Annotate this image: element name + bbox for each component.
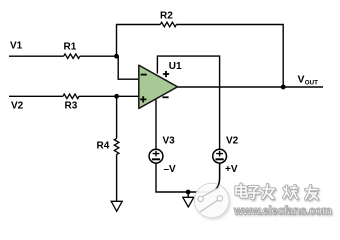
svg-text:R3: R3 <box>65 101 78 112</box>
svg-text:R4: R4 <box>97 140 110 151</box>
svg-text:U1: U1 <box>169 61 182 72</box>
svg-text:www.elecfans.com: www.elecfans.com <box>233 206 332 218</box>
svg-text:V1: V1 <box>10 40 23 51</box>
svg-text:V3: V3 <box>163 135 176 146</box>
svg-text:OUT: OUT <box>305 80 318 87</box>
svg-text:–V: –V <box>164 164 177 175</box>
svg-text:R1: R1 <box>64 41 77 52</box>
svg-text:V2: V2 <box>226 135 239 146</box>
svg-text:V: V <box>298 74 305 86</box>
svg-text:R2: R2 <box>160 10 173 21</box>
svg-text:+V: +V <box>225 164 238 175</box>
svg-text:V2: V2 <box>11 101 24 112</box>
